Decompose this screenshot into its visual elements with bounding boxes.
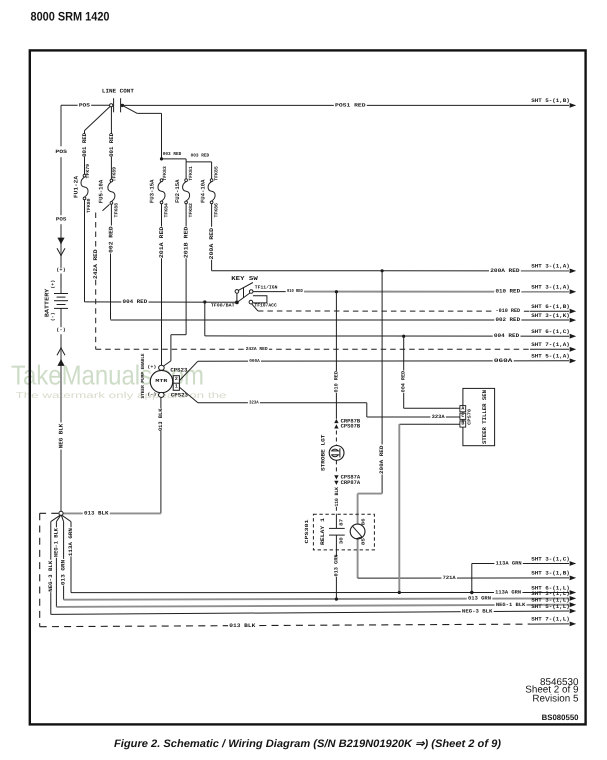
svg-text:060A: 060A [249,359,260,364]
svg-text:POS1 RED: POS1 RED [335,102,366,108]
svg-text:TFK83: TFK83 [162,166,168,181]
svg-text:CPS23: CPS23 [171,392,188,398]
wire 013 BLK horizontal to NEG junction [63,512,161,514]
svg-text:NEG-1 BLK: NEG-1 BLK [496,602,526,608]
svg-text:FU4-10A: FU4-10A [199,179,206,203]
svg-text:003 RED: 003 RED [163,151,182,157]
svg-text:113A GRN: 113A GRN [495,590,521,596]
svg-text:BATTERY: BATTERY [43,288,50,317]
wire from steer tiller pin B [399,423,460,425]
junction 113A GRN branch [470,591,473,594]
wire 001 RED label (FU1 branch) [81,132,88,157]
wire -010 RED dashed to SHT 6-(1,B) [258,310,530,312]
wire 004 RED from FU1 to key switch [84,200,86,302]
doc info block [525,677,579,722]
svg-text:87: 87 [339,518,345,525]
svg-text:NEG-1 BLK: NEG-1 BLK [53,527,59,557]
wire 721A from relay to SHT 3-(1,B) [358,577,569,579]
junction 004 RED branch [203,300,206,303]
svg-text:CRP87A: CRP87A [341,480,361,486]
wire 013 GRN row to SHT 3-(1,L) [64,598,569,599]
svg-text:NEG BLK: NEG BLK [58,423,65,448]
svg-text:110 BLK: 110 BLK [334,487,340,507]
svg-text:200A RED: 200A RED [490,268,519,274]
pin TFK80 [86,198,92,213]
wire 242A RED dashed vertical [95,213,97,249]
wire POS1 RED to SHT 5-(1,B) [124,104,570,106]
relay coil wire pin 87 [335,514,337,528]
svg-text:CPS78: CPS78 [467,409,473,425]
svg-text:242A RED: 242A RED [246,346,268,352]
wire dashed to strobe [335,431,337,446]
wire NEG-1 BLK row to SHT 3-(1,L) [56,605,569,607]
svg-text:(+): (+) [56,267,66,273]
svg-text:TFK89: TFK89 [111,167,117,182]
arrow up solid on NEG bus [57,359,64,366]
wire from contactor to fuse rail [124,106,137,113]
svg-text:(+): (+) [50,280,56,289]
svg-text:POS: POS [79,102,90,108]
svg-text:013 GRN: 013 GRN [468,596,491,602]
svg-text:86: 86 [361,518,367,525]
svg-text:-010 RED: -010 RED [496,308,521,314]
node POS label lower [55,216,68,223]
svg-text:TFK84: TFK84 [163,203,169,218]
svg-text:FU5-10A: FU5-10A [98,179,105,203]
svg-text:1: 1 [175,384,178,390]
pin TF11/IGN circle [249,290,253,294]
wire 002 RED from FU5 [110,204,112,225]
wire 013 BLK from motor (-) [160,397,162,408]
connector arrow down CRP87A [334,481,338,485]
junction pin B wire to 113A GRN row [398,591,401,594]
pin C box [460,413,466,419]
relay CPS301 label [304,519,310,543]
junction 010 RED strobe branch [335,290,338,293]
wire 200A RED row to SHT 3-(1,A) [212,270,569,272]
wire NEG-3 BLK row to SHT 5-(1,L) [51,611,569,614]
wire 002 RED long row to SHT 3-(1,K) [111,319,570,321]
svg-text:RELAY 1: RELAY 1 [320,518,326,545]
label FU3-15A [149,179,156,203]
sensor STEER TILLER SEN label [481,390,488,444]
svg-text:SHT 3-(1,L): SHT 3-(1,L) [531,591,570,597]
svg-text:SHT 3-(1,B): SHT 3-(1,B) [531,571,570,577]
svg-text:SHT 3-(1,C): SHT 3-(1,C) [531,556,570,562]
pin TFK85 [213,166,219,181]
node (-) inline marker [55,328,67,334]
svg-text:B: B [461,421,464,427]
svg-text:002 RED: 002 RED [496,317,521,323]
junction NEG bus circle [59,511,63,515]
svg-text:FU1-2A: FU1-2A [72,175,79,198]
svg-text:POS: POS [55,149,67,155]
wire 010 RED drop to strobe light [335,292,337,371]
svg-text:323A: 323A [432,414,445,420]
node (+) inline marker [55,268,67,274]
wire NEG-1 BLK vertical [55,522,57,528]
fuse FU2-15A [185,179,188,182]
sensor STEER TILLER SEN box [463,388,495,445]
svg-text:SHT 3-(1,A): SHT 3-(1,A) [531,264,570,270]
wire 200A RED from FU4 [211,204,213,227]
svg-text:POS: POS [56,217,67,223]
wire NEG BLK label [58,423,65,450]
fuse FU3-15A [160,179,163,182]
svg-text:SHT 5-(1,B): SHT 5-(1,B) [531,98,570,104]
pin TFK82 [188,203,194,218]
wire ACC leader to -010 RED [252,304,258,311]
pin TFK86 [213,203,219,218]
arrow up chevron on NEG bus [57,348,65,355]
relay RELAY 1 box [313,514,374,550]
pin TFK83 [162,166,168,181]
wire 001 RED diagonal to FU1 [85,106,111,130]
label FU4-10A [199,179,206,203]
svg-text:010 RED: 010 RED [333,371,339,393]
label 200A RED (vertical) [208,227,215,259]
svg-text:323A: 323A [249,400,259,405]
wire 003 RED rail 1 [162,158,187,160]
motor MTR (-) terminal [159,392,165,397]
label 242A RED (vertical) [92,249,99,279]
svg-text:TFK86: TFK86 [213,203,219,218]
label FU2-15A [174,179,181,203]
wire 004 RED branch down [204,302,206,336]
wire fan to NEG-3 BLK [51,515,60,521]
pin 86 [361,518,367,525]
svg-text:KEY SW: KEY SW [231,275,258,282]
svg-text:STEER TILLER SEN: STEER TILLER SEN [481,390,488,444]
svg-text:FU3-15A: FU3-15A [149,179,156,203]
svg-text:004 RED: 004 RED [494,333,519,339]
svg-text:113A GRN: 113A GRN [496,561,522,567]
relay coil wire pin 30 [335,535,337,556]
svg-text:013 BLK: 013 BLK [84,510,109,516]
contactor LINE CONT left bar [113,98,115,112]
pin TFK84 [163,203,169,218]
wire 004 RED drop to steer tiller sensor pin A [403,336,405,370]
svg-text:30: 30 [339,537,345,544]
svg-text:002 RED: 002 RED [107,226,114,253]
pin TFK89 [111,167,117,182]
connector CPS78 label [467,409,473,425]
svg-text:TFK81: TFK81 [188,166,194,181]
wire 113A GRN row to SHT 6-(1,L) [71,592,569,594]
pin 30 [339,537,345,544]
wire IGN-ACC jumper [253,296,267,303]
svg-text:A: A [461,405,464,411]
svg-text:CPS07B: CPS07B [341,424,361,430]
svg-text:Figure 2. Schematic / Wiring D: Figure 2. Schematic / Wiring Diagram (S/… [114,738,501,750]
battery (-) plate label [50,312,56,321]
pin TFK79 [85,164,91,179]
wire 201A RED from FU3 to motor (+) [161,204,163,227]
wire dashed below strobe [335,460,337,473]
wire fan to 013 GRN [61,515,63,521]
node POS label (horizontal wire) [78,102,92,109]
svg-text:013 GRN: 013 GRN [333,555,339,577]
wire 001 RED label (FU5 branch) [108,132,115,157]
wire 110 BLK label [334,487,340,507]
svg-text:TFK79: TFK79 [85,164,91,179]
svg-text:003 RED: 003 RED [191,153,210,159]
svg-text:SHT 6-(1,C): SHT 6-(1,C) [531,329,570,335]
wire 003 RED rail 2 [186,161,212,163]
svg-text:NEG-3 BLK: NEG-3 BLK [48,560,54,592]
svg-text:TF11/IGN: TF11/IGN [255,284,278,290]
svg-text:SHT 6-(1,B): SHT 6-(1,B) [531,304,570,310]
svg-text:SHT 3-(1,L): SHT 3-(1,L) [531,598,570,604]
connector arrow down CPS87A [334,475,338,479]
svg-text:013 BLK: 013 BLK [229,623,256,629]
wire 323A from motor pin 1 to steer tiller sensor pin C [180,387,198,402]
svg-text:001 RED: 001 RED [81,132,88,157]
svg-text:SHT 5-(1,A): SHT 5-(1,A) [531,354,570,360]
pin TF10/ACC circle [249,300,253,304]
junction 004 RED to steer tiller [402,335,405,338]
svg-text:TF08/BAT: TF08/BAT [211,302,235,308]
svg-text:BS080550: BS080550 [542,713,580,722]
svg-text:C: C [461,413,464,419]
fuse FU5-10A [110,179,113,182]
wire 113A GRN vertical [70,522,72,528]
relay coil plates [329,527,345,529]
contactor LINE CONT right terminal dot [121,104,124,107]
fuse FU1-2A [83,174,86,177]
svg-text:SHT 3-(1,K): SHT 3-(1,K) [531,313,570,319]
motor MTR body [150,370,172,392]
wire POS horizontal to line contactor [61,104,110,106]
watermark TakeManuals [11,360,227,400]
pin TF08/BAT terminal dot [235,301,239,305]
svg-text:8000 SRM 1420: 8000 SRM 1420 [31,10,110,24]
lamp STROBE LGT [329,446,344,461]
pin TFK81 [188,166,194,181]
svg-text:TFK82: TFK82 [188,203,194,218]
svg-text:SHT 5-(1,L): SHT 5-(1,L) [531,604,570,610]
pin 87 [339,518,345,525]
svg-text:721A: 721A [443,575,456,581]
svg-text:201B RED: 201B RED [183,226,190,258]
switch KEY SW linkage [243,287,245,298]
wire 242A RED dashed horizontal to SHT 7-(1,A) [96,348,530,350]
battery (+) plate label [50,280,56,289]
wire 010 RED from key switch to SHT 3-(1,A) [253,291,300,293]
contactor LINE CONT right bar [120,98,122,112]
svg-text:The watermark only appears on: The watermark only appears on the [16,390,227,400]
svg-text:013 GRN: 013 GRN [61,560,67,586]
wire 013 GRN vertical [63,522,65,559]
label STEER PUMP ENABLE [140,353,146,398]
wire NEG-3 BLK vertical [50,522,52,560]
svg-text:001 RED: 001 RED [108,132,115,157]
svg-text:CPS23: CPS23 [170,368,187,374]
svg-text:MTR: MTR [155,378,167,384]
svg-text:060A: 060A [494,358,514,364]
lamp STROBE LGT label [320,434,326,471]
label FU5-10A [98,179,105,203]
wire 013 BLK dashed from NEG junction [40,512,59,514]
wire 200A RED branch down to relay [381,271,383,445]
contactor LINE CONT left terminal circle [110,104,113,107]
wire 201B RED from FU2 to motor (+) [185,204,187,227]
junction 003 RED rail [160,157,163,160]
connector arrow up CRP87B [334,419,338,423]
relay RELAY 1 label [320,518,326,545]
svg-text:200A RED: 200A RED [379,446,385,475]
svg-text:TFK80: TFK80 [86,198,92,213]
wire 013 GRN from relay [333,555,339,577]
wire 013 BLK dashed bottom row to SHT 7-(1,L) [40,624,530,627]
arrow down solid on POS bus [57,238,64,245]
svg-text:(-): (-) [50,312,56,321]
wire 060A from motor pin 2 to SHT 5-(1,A) [180,361,198,380]
switch KEY SW blade lower [238,293,250,302]
svg-text:201A RED: 201A RED [158,226,165,258]
svg-text:200A RED: 200A RED [208,227,215,259]
pin TFK88 [113,203,119,218]
battery cell plates [54,293,68,295]
wire fan to NEG-1 BLK [56,515,60,521]
svg-text:004 RED: 004 RED [123,299,148,305]
svg-text:TF10/ACC: TF10/ACC [254,303,277,309]
wire fan to 113A GRN [62,515,71,521]
label FU1-2A [72,175,79,198]
pin B box [460,421,466,427]
fuse FU4-10A [210,179,213,182]
wire 001 RED vertical to FU5 [110,106,112,133]
arrow down chevron on POS bus [57,248,65,255]
svg-text:STROBE LGT: STROBE LGT [320,434,326,471]
switch KEY SW pivot circle [235,290,239,294]
wire 004 RED row to SHT 6-(1,C) [205,335,569,337]
svg-text:LINE CONT: LINE CONT [102,88,135,95]
junction 013 GRN row [335,598,338,601]
connector CPS23 pin box [173,376,179,391]
connector arrow up CPS07B [334,424,338,428]
svg-text:FU2-15A: FU2-15A [174,179,181,203]
svg-text:TFK85: TFK85 [213,166,219,181]
svg-text:(-): (-) [147,392,156,398]
switch KEY SW blade upper [238,283,253,291]
svg-text:(-): (-) [56,327,66,333]
pin 85 [361,538,367,545]
svg-text:NEG-3 BLK: NEG-3 BLK [462,608,493,614]
svg-text:85: 85 [361,538,367,545]
svg-text:013 BLK: 013 BLK [158,408,164,431]
label 002 RED (vertical) [107,226,114,253]
relay contact circle [350,524,365,539]
node POS label upper [54,149,68,156]
svg-text:STEER PUMP ENABLE: STEER PUMP ENABLE [140,353,146,398]
svg-text:TFK88: TFK88 [113,203,119,218]
svg-text:Revision 5: Revision 5 [532,693,579,704]
wire 113A GRN branch to SHT 3-(1,C) [471,564,473,593]
fuse FU5 clip tail [103,204,110,210]
motor MTR (+) terminal [159,365,165,370]
svg-text:010 RED: 010 RED [287,288,303,294]
svg-text:010 RED: 010 RED [496,289,521,295]
svg-text:SHT 7-(1,A): SHT 7-(1,A) [531,342,570,348]
svg-text:SHT 3-(1,A): SHT 3-(1,A) [531,285,570,291]
svg-text:2: 2 [175,376,178,382]
wire POS battery bus (vertical) [60,105,62,146]
junction 200A RED strobe-relay branch [381,269,384,272]
svg-text:113A GRN: 113A GRN [68,528,74,556]
wire dashed to relay [335,507,337,515]
pin A box [460,406,466,412]
svg-text:(+): (+) [147,364,156,370]
svg-text:SHT 7-(1,L): SHT 7-(1,L) [531,617,570,623]
battery BATTERY label [43,288,50,317]
svg-text:004 RED: 004 RED [401,371,407,393]
svg-text:242A RED: 242A RED [92,249,99,279]
svg-text:CPS301: CPS301 [304,519,310,543]
relay contact blade [352,526,362,537]
